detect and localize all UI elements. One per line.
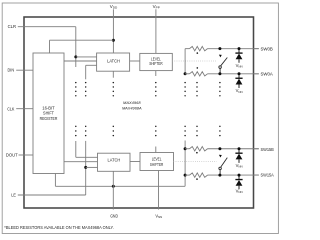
repetition dots switch column [219,82,220,136]
shift register U2 box [33,53,64,174]
control line U4 to switch S1 dotted [172,60,217,62]
svg-text:SW0A: SW0A [261,71,273,76]
asterisk marker R4 [196,178,198,180]
resistor R1 bleed SW0B [190,46,208,50]
asterisk marker R3 [196,152,198,154]
wire shift register to latch U3 data [64,161,98,163]
asterisk marker R1 [197,52,199,54]
wire DIN [16,69,33,71]
svg-text:VPP: VPP [153,4,160,10]
diode D4 clamp SW15A to VNN [238,175,240,179]
repetition dots CLR column [75,82,76,136]
node ground rail junction [112,185,115,188]
wire bleed rail channel 15 [184,141,186,187]
wire SW15A line right segment [208,174,259,176]
svg-text:MAX4968A: MAX4968A [122,105,142,110]
diode D2 clamp SW0A to VNN [238,74,240,78]
repetition dots level shifter column [155,82,156,136]
svg-text:LATCH: LATCH [107,58,120,63]
pin SW15A stub [254,174,258,176]
repetition dots resistor column [196,82,197,136]
wire latch U1 to level shifter U4 [130,60,140,62]
wire level shifter U4 bottom stub [155,71,157,76]
switch S1 [218,47,221,50]
node CLR junction [74,55,77,58]
svg-text:LE: LE [11,192,16,197]
repetition dots LE column [85,82,86,136]
wire CLK [16,108,33,110]
wire CLR vertical [75,27,77,67]
node SW15B diode junction [238,147,241,150]
pin SW0A stub [254,73,258,75]
switch S2 [218,147,221,150]
resistor R3 bleed SW15B [190,147,208,151]
wire VPP pin to level shifter [155,9,157,53]
svg-text:SHIFTER: SHIFTER [150,162,163,167]
svg-text:DIN: DIN [8,68,15,73]
svg-text:SHIFT: SHIFT [43,111,54,116]
svg-text:VDD: VDD [110,4,118,10]
wire LE vertical lower [85,141,87,195]
asterisk marker R2 [197,67,199,69]
wire VNN vertical [158,171,160,210]
repetition dots bleed rail column [184,82,185,136]
svg-text:*BLEED RESISTORS AVAILABLE ON: *BLEED RESISTORS AVAILABLE ON THE MAX496… [4,225,114,230]
node SW0A diode junction [238,72,241,75]
svg-text:LEVEL: LEVEL [152,156,162,161]
wire latch U1 bottom stub [112,71,114,78]
wire SW0B line left segment [185,48,189,50]
wire shift register to latch U1 data [64,60,97,62]
svg-text:DOUT: DOUT [6,152,18,157]
resistor R4 bleed SW15A [190,173,208,177]
wire SW15B line left segment [185,148,189,150]
diode D3 clamp SW15B to VNN [238,149,240,153]
wire SW0A line right segment [208,73,259,75]
wire LE to latch U3 [86,166,98,168]
node bleed rail to SW15B [184,147,187,150]
wire CLR vertical lower [75,141,77,157]
repetition dots latch column [113,82,114,136]
svg-text:REGISTER: REGISTER [40,116,58,121]
svg-text:SW15A: SW15A [261,173,274,178]
node SW0B diode junction [238,47,241,50]
wire SW15B line right segment [208,148,259,150]
svg-text:LATCH: LATCH [108,157,121,162]
svg-text:VNN: VNN [236,63,243,69]
wire LE to latch U1 [86,64,97,66]
wire DOUT [19,154,34,156]
diode D1 clamp SW0B to VNN [238,49,240,53]
svg-text:SHIFTER: SHIFTER [149,61,162,66]
IC boundary MAX4968 [24,17,254,208]
wire SW0A line left segment [185,73,189,75]
node VDD rail junction [112,39,115,42]
latch U3 box [98,153,131,171]
node LE junction [84,166,87,169]
wire VDD rail [50,39,114,41]
control line U5 to switch S2 dotted [174,160,217,162]
svg-text:16-BIT: 16-BIT [42,105,55,110]
wire SW0B line right segment [208,48,259,50]
wire LE vertical upper [85,65,87,79]
wire latch U3 to level shifter U5 [130,161,140,163]
node bleed rail to SW15A [184,174,187,177]
wire SW15A line left segment [185,174,189,176]
svg-text:CLR: CLR [8,24,16,29]
svg-text:VNN: VNN [236,189,243,195]
node SW15A diode junction [238,174,241,177]
wire GND vertical [112,171,114,209]
wire CLR horizontal [18,26,76,28]
wire VDD pin to rail [112,9,114,53]
svg-text:VNN: VNN [155,213,162,219]
wire CLR to latch U1 [76,56,97,58]
svg-text:VNN: VNN [236,163,243,169]
wire shift register bottom to ground rail [54,174,56,187]
svg-text:SW15B: SW15B [261,147,274,152]
wire bleed rail channel 0 [184,49,186,74]
wire CLR to latch U3 [76,156,98,158]
resistor R2 bleed SW0A [190,72,208,76]
level shifter U5 box [140,153,174,171]
svg-text:CLK: CLK [7,106,14,111]
node bleed rail to SW0A [184,72,187,75]
pin SW15B stub [254,148,258,150]
wire LE horizontal [18,194,86,196]
wire VDD rail drop to shift register [49,40,51,53]
level shifter U4 box [140,53,173,70]
svg-text:VNN: VNN [236,88,243,94]
wire level shifter U5 top stub [155,147,157,153]
wire ground rail [55,185,185,187]
svg-text:GND: GND [110,213,118,218]
latch U1 box [97,53,130,71]
svg-text:SW0B: SW0B [261,47,273,52]
pin SW0B stub [254,48,258,50]
